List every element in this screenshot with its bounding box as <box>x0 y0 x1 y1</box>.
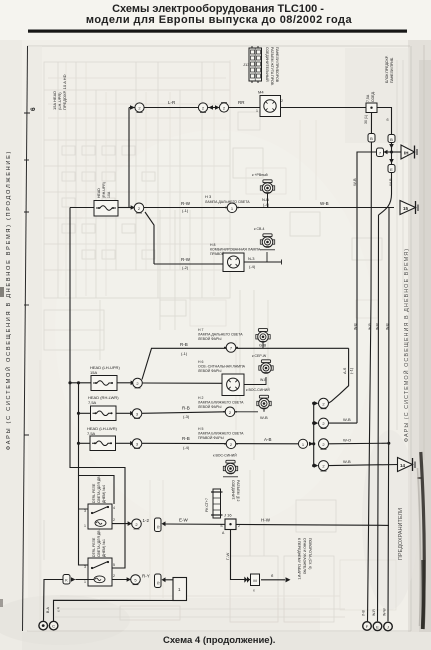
right connector column pair row4 <box>298 439 313 448</box>
svg-text:7,5A: 7,5A <box>88 400 97 405</box>
svg-text:3: 3 <box>84 565 86 569</box>
rotated destination text <box>297 538 312 580</box>
svg-text:J13: J13 <box>243 62 250 67</box>
connector arrow + circle (LH-LWR out) <box>130 439 142 449</box>
left edge dark tick <box>0 287 4 297</box>
connector I9 <box>155 518 166 532</box>
svg-text:ПРАВОЙ ФАРЫ: ПРАВОЙ ФАРЫ <box>198 436 224 440</box>
svg-text:W-O: W-O <box>343 438 351 443</box>
svg-text:B: B <box>370 136 373 141</box>
relay DTRL No2 label <box>92 475 106 503</box>
svg-text:R-B: R-B <box>182 406 190 411</box>
connector circle row4 <box>224 439 238 449</box>
svg-text:(-2): (-2) <box>182 265 189 270</box>
svg-text:РАЗЪЕМ №2: РАЗЪЕМ №2 <box>236 480 240 502</box>
svg-text:N-3: N-3 <box>248 256 255 261</box>
wire J16 down <box>231 530 251 580</box>
svg-text:E: E <box>376 624 379 629</box>
svg-text:J: J <box>387 625 389 630</box>
svg-text:W-B: W-B <box>343 459 351 464</box>
svg-text:СОЕДИНИТ.: СОЕДИНИТ. <box>231 480 235 500</box>
svg-text:x: x <box>253 589 255 593</box>
section marker 7 <box>24 304 29 306</box>
svg-text:M4: M4 <box>258 90 264 95</box>
wire H6 to socket <box>244 377 266 385</box>
svg-text:1-2: 1-2 <box>143 518 150 523</box>
wire row1 right: down from 348 corner <box>329 348 349 403</box>
svg-text:G-B: G-B <box>259 343 266 348</box>
col circle row3 <box>319 439 329 450</box>
svg-text:1: 1 <box>84 580 86 584</box>
svg-text:ПАНЕЛИ ПРИБОРОВ: ПАНЕЛИ ПРИБОРОВ <box>275 47 279 83</box>
wire: breaker to trunk1 and to connector <box>70 207 94 209</box>
svg-text:1: 1 <box>84 524 86 528</box>
svg-text:К ПЕРЕДНЕМУ ГАБАРИТ.: К ПЕРЕДНЕМУ ГАБАРИТ. <box>297 538 301 580</box>
svg-text:х 4: х 4 <box>57 607 61 612</box>
svg-text:БЛОК ПРЕДОХР.: БЛОК ПРЕДОХР. <box>385 55 389 83</box>
wire row3 <box>142 412 225 414</box>
lamp in box H6 <box>222 374 244 396</box>
svg-text:J 16: J 16 <box>224 513 232 518</box>
socket W-B row3 <box>257 395 271 420</box>
svg-text:ПАНЕЛИ ПРИБ.: ПАНЕЛИ ПРИБ. <box>390 57 394 83</box>
relay A left pin stub <box>79 508 89 510</box>
ground point IB <box>49 621 58 630</box>
svg-text:H 3: H 3 <box>205 194 212 199</box>
svg-text:C: C <box>52 624 55 629</box>
connector arrow + circle 2 (RH-UPR out) <box>131 203 144 213</box>
svg-text:W-R: W-R <box>372 609 376 616</box>
ground triangle 15 (row A) <box>400 201 418 215</box>
svg-text:I9: I9 <box>157 582 161 585</box>
svg-text:ЛАМПА ДАЛЬНЕГО СВЕТА: ЛАМПА ДАЛЬНЕГО СВЕТА <box>205 200 250 204</box>
svg-text:(-4): (-4) <box>183 445 190 450</box>
svg-text:(-4): (-4) <box>263 202 270 207</box>
rotated label J16 <box>231 480 240 502</box>
svg-text:(-4): (-4) <box>249 264 256 269</box>
ground triangle IH <box>401 145 417 159</box>
wire: v1 start <box>357 152 377 423</box>
rotated text above fuse <box>385 55 394 83</box>
circuit breaker HEAD(LH-UPR) <box>90 365 120 391</box>
svg-text:к +РВный: к +РВный <box>252 173 268 177</box>
svg-text:модели для Европы выпуска до 0: модели для Европы выпуска до 08/2002 год… <box>86 14 353 26</box>
circuit breaker HEAD(RH-LWR) <box>88 395 119 421</box>
svg-text:к ВОС-СИНИЙ: к ВОС-СИНИЙ <box>246 388 270 392</box>
svg-text:ЛЕВОЙ ФАРЫ: ЛЕВОЙ ФАРЫ <box>198 337 221 341</box>
svg-text:ПОВОРОТА (СХ. 6): ПОВОРОТА (СХ. 6) <box>308 538 312 569</box>
svg-text:W-R: W-R <box>375 323 379 330</box>
svg-text:H 7: H 7 <box>198 328 204 332</box>
lamp in box H8 <box>223 253 244 272</box>
svg-text:IH: IH <box>404 151 409 156</box>
socket к лампе прав. фары <box>252 173 275 208</box>
wire: top right corner down x=391.5 <box>377 108 392 195</box>
connector arrow + circle (RH-LWR out) <box>130 409 142 419</box>
svg-text:1: 1 <box>256 109 258 113</box>
svg-text:7,5A: 7,5A <box>87 431 96 436</box>
connector arrow + circle (LH-UPR out) <box>131 378 143 388</box>
svg-text:(-1): (-1) <box>181 351 188 356</box>
ghost bleed-through layer <box>40 60 410 622</box>
trunk2 <box>79 383 115 504</box>
svg-text:ПРЕДОХРАНИТЕЛИ: ПРЕДОХРАНИТЕЛИ <box>398 508 404 560</box>
svg-text:15: 15 <box>403 206 409 211</box>
relay B coil left chain: connector IK <box>63 575 76 585</box>
svg-text:ОСВ.-СИГНАЛЬНАЯ ЛАМПА: ОСВ.-СИГНАЛЬНАЯ ЛАМПА <box>198 365 246 369</box>
svg-text:ДНЕМ) №4: ДНЕМ) №4 <box>102 485 106 503</box>
svg-text:R-W: R-W <box>181 257 191 262</box>
wire: riser x=129 from breaker to top wire <box>128 108 130 208</box>
svg-text:14: 14 <box>400 463 406 468</box>
svg-text:W-B: W-B <box>343 417 351 422</box>
wire connector IK to ground IA <box>44 580 64 621</box>
svg-text:(-1): (-1) <box>182 208 189 213</box>
relay A output chain <box>112 523 130 525</box>
col circle row4 <box>314 461 329 472</box>
wire: top horizontal feed y=107.5 <box>129 107 366 109</box>
rotated label of J13 <box>265 47 279 86</box>
wire: row2 straight <box>142 382 222 384</box>
svg-text:ЛАМПА БЛИЖНЕГО СВЕТА: ЛАМПА БЛИЖНЕГО СВЕТА <box>198 432 244 436</box>
svg-text:2: 2 <box>113 518 115 522</box>
svg-text:ПРЕДОХР. 10 A HD: ПРЕДОХР. 10 A HD <box>62 74 67 110</box>
lamp M4 (подсветка) in box <box>256 90 283 117</box>
svg-text:W-B: W-B <box>320 201 329 206</box>
svg-text:A-B: A-B <box>264 437 272 442</box>
svg-text:2: 2 <box>281 99 283 103</box>
connector circle 7 row1 <box>224 343 238 353</box>
title underline <box>28 30 407 33</box>
junction dots <box>68 381 71 384</box>
svg-text:к ВОС-СИНИЙ: к ВОС-СИНИЙ <box>213 454 237 458</box>
ground point IF <box>363 622 372 631</box>
svg-text:H 8: H 8 <box>210 243 216 247</box>
svg-text:DTRL РЕЛЕ: DTRL РЕЛЕ <box>92 537 96 557</box>
svg-text:L-R: L-R <box>168 100 176 105</box>
svg-text:ЛЕВОЙ ФАРЫ: ЛЕВОЙ ФАРЫ <box>198 405 221 409</box>
svg-text:ФАРЫ (С СИСТЕМОЙ ОСВЕЩЕНИЯ В Д: ФАРЫ (С СИСТЕМОЙ ОСВЕЩЕНИЯ В ДНЕВНОЕ ВРЕ… <box>4 150 12 450</box>
wire: v2 from fuse down to ground point IF <box>368 113 372 622</box>
wire from H8 to socket <box>244 261 282 263</box>
ground point IE <box>373 622 382 631</box>
svg-text:E-W: E-W <box>179 518 189 523</box>
svg-text:Г-W: Г-W <box>225 553 230 560</box>
svg-text:ДНЕМ) №1: ДНЕМ) №1 <box>102 539 106 557</box>
svg-text:B: B <box>390 137 393 142</box>
wire to arrow right <box>261 579 285 581</box>
wire LH-UPR out <box>117 382 131 384</box>
wire: v3 down to ground point IE <box>378 215 379 621</box>
section marker 6 <box>24 107 37 113</box>
svg-text:СВЕТА (ДЛЯ ДВ.: СВЕТА (ДЛЯ ДВ. <box>97 475 101 503</box>
wire: v4 ground bus <box>388 208 389 622</box>
connector E on x391.5 <box>388 159 395 173</box>
svg-text:W-B: W-B <box>260 378 267 382</box>
noise filter component <box>244 574 259 593</box>
section tick <box>24 434 29 436</box>
connector strip PK CT+7 <box>205 489 223 518</box>
svg-text:к CEP-W: к CEP-W <box>252 354 267 358</box>
svg-text:H 2: H 2 <box>198 396 204 400</box>
svg-text:КОМБИНИРОВАННАЯ ЛАМПА: КОМБИНИРОВАННАЯ ЛАМПА <box>210 248 261 252</box>
section tick <box>24 211 29 213</box>
wire: to ground triangle 1 <box>392 151 402 153</box>
svg-text:СОЕДИНИТЕЛЬНЫЙ: СОЕДИНИТЕЛЬНЫЙ <box>265 47 269 82</box>
ground triangle 14 <box>398 458 416 472</box>
relay DTRL No1 label <box>92 529 106 557</box>
svg-text:7,5A: 7,5A <box>366 94 370 102</box>
wire row3 right to v4 <box>329 442 389 445</box>
row B wire <box>154 263 223 265</box>
circuit breaker HEAD(LH-LWR) <box>87 426 118 451</box>
svg-text:15A: 15A <box>90 370 97 375</box>
wire row4 right to ground <box>329 465 399 466</box>
svg-text:б: б <box>387 118 389 122</box>
svg-text:W-W: W-W <box>383 608 387 616</box>
connector circle 2 <box>132 519 142 529</box>
svg-text:СОЕД.: СОЕД. <box>371 91 375 102</box>
svg-text:ЛАМПА БЛИЖНЕГО СВЕТА: ЛАМПА БЛИЖНЕГО СВЕТА <box>198 401 244 405</box>
svg-text:W-B: W-B <box>354 323 358 330</box>
svg-text:M: M <box>253 578 256 583</box>
arrow <box>128 521 132 526</box>
connector circle relay B <box>131 575 141 585</box>
svg-text:W-B: W-B <box>260 415 268 420</box>
connector circle A1 <box>135 103 144 113</box>
svg-text:W-B: W-B <box>368 323 372 330</box>
svg-text:5: 5 <box>113 563 115 567</box>
right column bus <box>313 403 315 465</box>
svg-text:H-W: H-W <box>261 518 271 523</box>
svg-text:I9: I9 <box>157 526 161 529</box>
connector IB2 <box>155 574 166 588</box>
scan haze patches <box>345 48 409 143</box>
svg-text:DTRL РЕЛЕ: DTRL РЕЛЕ <box>92 483 96 503</box>
svg-text:РАЗЪЕМ ЖГУТА ПРОВ.: РАЗЪЕМ ЖГУТА ПРОВ. <box>270 47 274 86</box>
svg-text:HEAD: HEAD <box>97 188 101 198</box>
ground point IJ <box>384 622 393 631</box>
svg-text:к CB-4: к CB-4 <box>254 227 265 231</box>
svg-text:2: 2 <box>238 524 240 528</box>
svg-text:СВЕТА (ДЛЯ ДВ.: СВЕТА (ДЛЯ ДВ. <box>97 529 101 557</box>
end arrowhead <box>286 577 291 582</box>
wire to box E1 <box>166 579 174 581</box>
relay B output chain <box>112 579 129 581</box>
out LH-LWR <box>116 442 131 444</box>
wire: branch to row B <box>145 212 154 264</box>
svg-text:10A: 10A <box>107 191 111 198</box>
svg-text:(-3): (-3) <box>183 414 190 419</box>
svg-text:(-1): (-1) <box>349 367 354 374</box>
out RH-LWR <box>116 412 131 414</box>
svg-text:2: 2 <box>113 574 115 578</box>
socket G-B row1 <box>256 329 270 349</box>
svg-text:R-B: R-B <box>180 342 188 347</box>
connector 7 with arrow <box>377 148 388 157</box>
svg-text:ЛАМПА ДАЛЬНЕГО СВЕТА: ЛАМПА ДАЛЬНЕГО СВЕТА <box>198 333 243 337</box>
wire row4 <box>142 442 300 445</box>
fuse F7.5A top right <box>364 91 389 124</box>
svg-text:E: E <box>390 167 393 172</box>
svg-text:Л-В: Л-В <box>362 610 366 616</box>
svg-text:ОГНЮ И УКАЗАТЕЛЮ: ОГНЮ И УКАЗАТЕЛЮ <box>303 538 307 575</box>
wire row2 right to v1 <box>329 422 358 424</box>
svg-text:РК СТ+7: РК СТ+7 <box>205 498 209 512</box>
feed LH-LWR <box>79 442 91 444</box>
col circle row2 <box>314 418 329 429</box>
wire feed LH-UPR <box>70 382 91 384</box>
connector pair J/C on top wire <box>198 103 228 113</box>
relay DTRL No2 box <box>84 504 115 529</box>
wire: row A to right ground <box>144 207 394 209</box>
socket к ВОС-СИНИЙ row4 (below) <box>213 454 238 477</box>
J16 junction box <box>221 513 241 536</box>
svg-text:4: 4 <box>113 506 115 510</box>
svg-text:Схема 4 (продолжение).: Схема 4 (продолжение). <box>163 635 275 646</box>
svg-text:ЛЕВОЙ ФАРЫ: ЛЕВОЙ ФАРЫ <box>198 369 221 373</box>
wire: diagonal to row1 <box>142 348 349 379</box>
wire relay A to v4 <box>166 524 390 525</box>
svg-text:30 (1): 30 (1) <box>364 115 368 124</box>
wire coil left <box>76 579 95 581</box>
connector on v2 <box>368 134 375 143</box>
svg-text:В-А: В-А <box>46 607 50 614</box>
svg-text:R-W: R-W <box>181 201 191 206</box>
svg-text:H 5: H 5 <box>198 427 204 431</box>
box E1 <box>173 578 187 601</box>
trunk2 lower to relay B <box>79 476 89 566</box>
circuit breaker HEAD(RH-UPR) <box>94 182 118 216</box>
connector circle 2 row3 <box>223 407 237 417</box>
svg-text:ФАРЫ (С СИСТЕМОЙ ОСВЕЩЕНИЯ В Д: ФАРЫ (С СИСТЕМОЙ ОСВЕЩЕНИЯ В ДНЕВНОЕ ВРЕ… <box>402 248 410 442</box>
ground point IA <box>39 621 48 630</box>
svg-text:K: K <box>65 578 68 583</box>
socket к СВ-4 <box>254 227 275 250</box>
svg-text:R-Y: R-Y <box>142 574 150 579</box>
connector circle 1 row A <box>225 203 239 213</box>
svg-text:RR: RR <box>238 100 245 105</box>
node arrow into connector A1 <box>130 105 135 110</box>
svg-text:А-б: А-б <box>342 367 347 374</box>
col circle row1 <box>314 398 329 409</box>
bus junction dots <box>312 402 315 405</box>
socket к СЕР-М row2 <box>252 354 273 382</box>
relay DTRL No1 box <box>84 558 115 586</box>
svg-text:H 6: H 6 <box>198 360 204 364</box>
svg-text:3: 3 <box>84 509 86 513</box>
fuse label top-left <box>52 74 67 110</box>
book spine shadow <box>421 452 424 629</box>
svg-text:R-B: R-B <box>182 436 190 441</box>
wire to bulb row3 <box>237 411 258 413</box>
svg-text:(RH-UPR): (RH-UPR) <box>102 182 106 198</box>
wire: left from junction to v1 <box>384 151 392 153</box>
svg-text:W-B: W-B <box>388 178 393 186</box>
trunk1 vertical <box>70 208 125 569</box>
schematic frame <box>27 45 410 47</box>
svg-text:W-B: W-B <box>352 178 357 186</box>
wire: jog to v3 <box>379 194 392 215</box>
svg-text:6: 6 <box>30 107 37 111</box>
bottom return wire <box>54 600 181 621</box>
svg-text:W-B: W-B <box>386 323 390 330</box>
connector block J13 <box>243 46 262 83</box>
feed RH-LWR <box>79 412 91 414</box>
connector B on x391.5 <box>388 135 395 149</box>
